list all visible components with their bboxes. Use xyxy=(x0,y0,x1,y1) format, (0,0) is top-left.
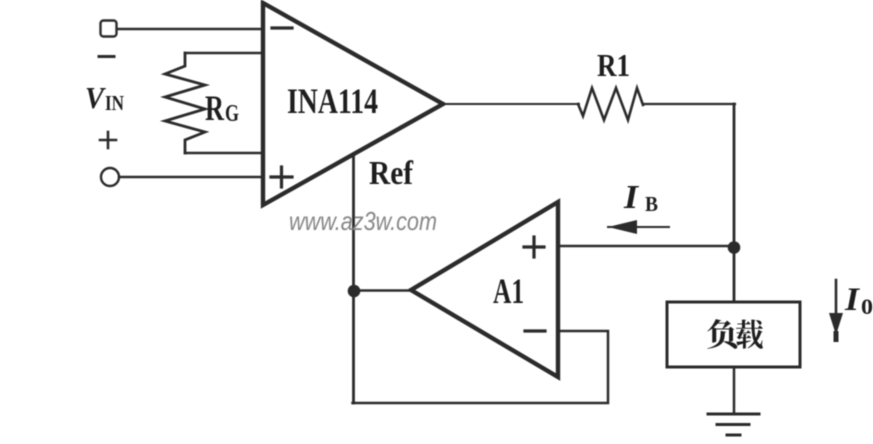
label plus (input polarity) xyxy=(100,132,116,148)
node (right rail / A1 +input junction) xyxy=(728,241,741,254)
svg-text:INA114: INA114 xyxy=(287,81,378,121)
pin label minus (U1 inverting input) xyxy=(272,26,292,29)
svg-text:I: I xyxy=(623,179,640,216)
wire (A1 output) xyxy=(353,289,411,292)
resistor R1 xyxy=(578,88,643,120)
pin label minus (A1 inverting input) xyxy=(525,329,545,332)
wire (Ref net vertical) xyxy=(352,155,355,403)
op-amp U1 INA114 xyxy=(263,3,443,205)
svg-text:0: 0 xyxy=(861,294,873,319)
svg-text:B: B xyxy=(645,192,658,216)
op-amp A1 xyxy=(411,202,558,377)
wire (load to ground) xyxy=(733,367,736,413)
wire xyxy=(117,28,263,30)
wire (R1 to right rail) xyxy=(643,103,735,105)
arrow IB (current direction, pointing left) xyxy=(608,226,669,228)
wire (U1 output) xyxy=(443,103,579,105)
resistor RG xyxy=(165,53,205,153)
terminal J2 (positive input, circle) xyxy=(101,168,119,186)
svg-text:R1: R1 xyxy=(597,47,630,83)
node (A1 output / Ref net junction) xyxy=(348,285,361,298)
svg-text:V: V xyxy=(85,80,106,115)
svg-text:IN: IN xyxy=(105,91,124,115)
wire (RG bottom to INA114) xyxy=(185,152,263,154)
wire (A1 + input to node) xyxy=(558,245,734,248)
svg-text:A1: A1 xyxy=(493,271,524,311)
svg-text:Ref: Ref xyxy=(369,155,414,192)
svg-text:www.az3w.com: www.az3w.com xyxy=(289,206,437,236)
label 负载 (load) xyxy=(707,319,763,349)
terminal J1 (negative input, square) xyxy=(101,21,117,37)
load box (negative load) xyxy=(667,302,800,367)
arrow I0 (output current, pointing down) xyxy=(835,280,838,316)
wire (RG top to INA114) xyxy=(185,52,263,54)
svg-text:R: R xyxy=(205,88,225,128)
pin label plus (U1 non-inverting input) xyxy=(271,167,292,187)
wire (bottom feedback run) xyxy=(353,331,609,403)
svg-text:G: G xyxy=(225,101,239,127)
ground xyxy=(708,414,759,435)
wire (right rail vertical) xyxy=(733,104,736,303)
wire xyxy=(119,176,263,178)
label minus (input polarity) xyxy=(99,55,114,58)
pin label plus (A1 non-inverting input) xyxy=(524,237,544,257)
svg-text:I: I xyxy=(844,282,860,318)
